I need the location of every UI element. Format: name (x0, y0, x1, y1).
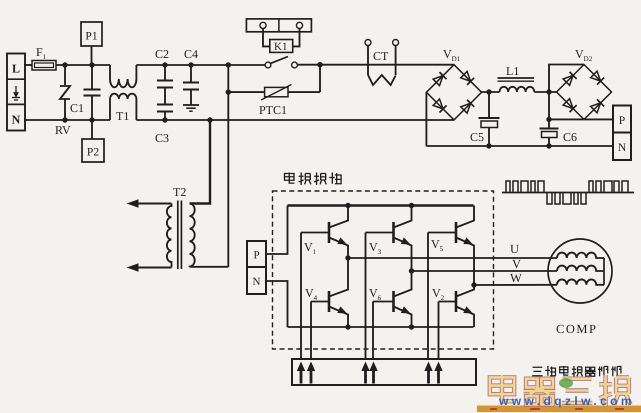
fuse F1 (29, 45, 56, 70)
node: bottom rail / T2 primary feed (207, 117, 212, 122)
wire: T2 primary bottom to K1/PTC column (190, 266, 229, 268)
node: top rail / C1 / P1 (89, 62, 94, 67)
svg-text:V4: V4 (305, 286, 318, 302)
thermistor PTC1 branch wire (228, 91, 320, 93)
transformer T2 primary winding (right) (190, 204, 195, 267)
svg-text:P1: P1 (85, 31, 97, 43)
svg-text:VD2: VD2 (575, 47, 593, 63)
node: W phase (471, 282, 476, 287)
PWM waveform pulses (506, 181, 628, 204)
svg-text:COMP: COMP (556, 322, 597, 336)
svg-text:T1: T1 (116, 109, 129, 123)
gate feed wire V2 (438, 302, 440, 360)
capacitor C5 (electrolytic) (470, 92, 500, 146)
transistor V5 (top, phase W) (428, 206, 475, 286)
common-mode choke T1 (bottom winding) (110, 94, 136, 120)
wire: node down to PTC branch (319, 65, 321, 92)
node: bottom bus leg2 (409, 324, 414, 329)
node: V phase (409, 268, 414, 273)
transformer T2 secondary winding (left) (167, 204, 172, 268)
motor winding V (557, 266, 604, 271)
svg-text:V1: V1 (304, 240, 317, 256)
connector P1 (81, 22, 102, 65)
current transformer CT (365, 40, 399, 86)
node: top bus leg1 (345, 203, 350, 208)
wire: VD1 left vertex to negative rail (425, 92, 427, 146)
svg-text:V: V (512, 257, 521, 271)
svg-text:P2: P2 (87, 147, 99, 159)
gate feed wire V1 (300, 233, 302, 360)
svg-text:V2: V2 (432, 286, 445, 302)
motor winding W (557, 279, 604, 284)
wire: K1/PTC node column down to T2 primary (227, 65, 229, 267)
connector P2 (82, 120, 104, 162)
capacitor C2 (155, 47, 173, 104)
svg-text:C1: C1 (70, 101, 84, 115)
bridge rectifier VD2 (557, 47, 612, 120)
transformer T2 core (178, 201, 182, 270)
connector N (DC bus out) (613, 133, 631, 161)
ground symbol below C4 (183, 105, 199, 111)
wire top rail: fuse to T1 (56, 64, 110, 66)
wire: P to top bus (266, 206, 288, 255)
svg-text:V6: V6 (369, 286, 382, 302)
node: negative rail / C5 (486, 143, 491, 148)
relay contact switch (265, 57, 297, 68)
watermark CJK characters (490, 375, 631, 406)
wire: VD2 P line to connector P (549, 118, 613, 120)
watermark green accent (559, 378, 573, 388)
gate drive connector box (292, 359, 476, 385)
connector P (DC bus out) (613, 106, 631, 133)
capacitor C4 (183, 47, 199, 105)
svg-text:PTC1: PTC1 (259, 103, 287, 117)
transistor V2 (bottom, phase W) (432, 285, 475, 327)
bridge rectifier VD1 (426, 47, 481, 120)
motor winding U (557, 253, 604, 258)
label: inverter module (CJK) (285, 173, 342, 186)
gate feed wire V4 (310, 302, 312, 360)
capacitor C1 (70, 65, 101, 120)
node: U phase (345, 255, 350, 260)
node: top rail / K1-PTC branch (226, 62, 231, 67)
transistor V4 (bottom, phase U) (305, 258, 349, 327)
node: top bus leg2 (409, 203, 414, 208)
wire: bottom rail node down to T2 primary top (thick) (190, 120, 211, 204)
node: switch / PTC junction right (317, 62, 322, 67)
connector N (module input) (247, 267, 266, 294)
U phase wire (348, 257, 557, 259)
relay coil K1 (263, 29, 300, 54)
svg-text:N: N (253, 276, 261, 288)
wire: VD1 right vertex to L1 (482, 91, 500, 93)
terminal block input L/GND/N (7, 54, 25, 131)
gate feed wire V3 (365, 233, 367, 360)
motor star bar (603, 258, 605, 285)
gate drive arrows (297, 362, 443, 384)
svg-text:W: W (510, 271, 522, 285)
svg-text:K1: K1 (274, 41, 287, 53)
wire top rail: T1 to switch (136, 64, 265, 66)
svg-text:N: N (618, 142, 627, 154)
transistor V1 (IGBT top, phase U) (301, 206, 349, 259)
svg-text:P: P (619, 115, 625, 127)
capacitor C6 (electrolytic) (540, 119, 578, 146)
node: negative rail / C6 (546, 143, 551, 148)
negative DC rail wire (426, 145, 613, 147)
node: top rail / C2 (162, 62, 167, 67)
relay K1 terminal strip (246, 19, 311, 32)
svg-text:C6: C6 (563, 130, 577, 144)
transistor V6 (bottom, phase V) (369, 271, 412, 327)
node: top rail / C4 (188, 62, 193, 67)
inductor L1 (498, 64, 535, 92)
connector P (module input) (247, 241, 266, 267)
svg-text:U: U (510, 242, 519, 256)
node: top rail / RV (62, 62, 67, 67)
W phase wire (474, 284, 557, 286)
wire L terminal to fuse F1 (24, 64, 32, 66)
V phase wire (412, 270, 558, 272)
svg-text:N: N (12, 113, 21, 127)
node: VD1+ / C5 (486, 89, 491, 94)
wire: L1 to VD2 node (534, 91, 557, 93)
motor COMP circle (548, 239, 612, 303)
wire top rail: switch node to VD1 top vertex (320, 64, 454, 66)
top DC bus (thick) (288, 204, 474, 207)
wire: N to bottom bus (266, 281, 288, 327)
wire: switch to node (297, 64, 320, 66)
node: bottom rail / RV (62, 117, 67, 122)
watermark bar (477, 406, 641, 413)
svg-text:www.dqzlw.com: www.dqzlw.com (498, 394, 635, 408)
svg-text:P: P (253, 250, 259, 262)
wire bottom rail: T1 to VD1 bottom vertex (136, 119, 454, 121)
PWM waveform baseline (502, 192, 634, 194)
inverter module dashed enclosure (273, 191, 494, 349)
node: C6 top / P line (546, 117, 551, 122)
svg-text:C5: C5 (470, 130, 484, 144)
node: L1 out / VD2 (546, 89, 551, 94)
svg-text:C3: C3 (155, 131, 169, 145)
wire: node down to C6 / P line (548, 92, 550, 119)
common-mode choke T1 (top winding) (110, 65, 136, 87)
svg-text:C2: C2 (155, 47, 169, 61)
node: bottom bus leg1 (345, 324, 350, 329)
svg-text:V3: V3 (369, 240, 382, 256)
wire bottom rail: N terminal to T1 (24, 119, 110, 121)
svg-text:C4: C4 (184, 47, 198, 61)
node: bottom rail / C1 / P2 (89, 117, 94, 122)
svg-text:L1: L1 (506, 64, 519, 78)
bottom bus (288, 326, 474, 328)
svg-text:T2: T2 (173, 185, 186, 199)
wire: node up and over to VD2 top vertex (549, 65, 584, 93)
svg-text:V5: V5 (431, 237, 444, 253)
svg-text:F1: F1 (36, 45, 47, 61)
svg-text:RV: RV (55, 123, 71, 137)
svg-text:VD1: VD1 (443, 47, 461, 63)
node: bottom rail / C3 (162, 117, 167, 122)
thermistor PTC1 (259, 85, 292, 118)
label: three-phase inverter compressor (CJK) (532, 366, 621, 377)
varistor RV (55, 65, 71, 137)
svg-text:CT: CT (373, 49, 389, 63)
capacitor C3 (155, 105, 173, 146)
T2 secondary output wire with arrow (bottom) (127, 263, 172, 272)
gate feed wire V6 (372, 302, 374, 360)
svg-text:L: L (12, 62, 20, 76)
gate feed wire V5 (427, 233, 429, 360)
node: PTC branch left (226, 89, 231, 94)
T2 secondary output wire with arrow (top) (127, 199, 172, 208)
transistor V3 (top, phase V) (366, 206, 413, 272)
